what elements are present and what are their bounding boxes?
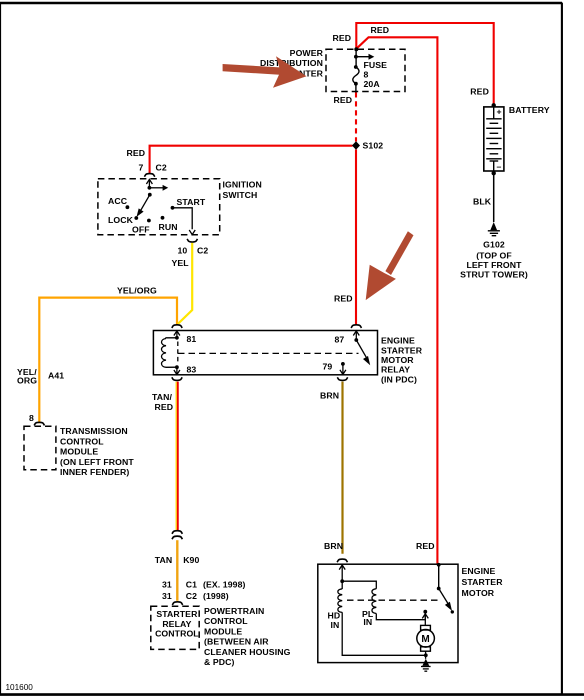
svg-text:HD: HD	[328, 611, 341, 621]
svg-text:START: START	[177, 197, 206, 207]
svg-text:STARTER: STARTER	[381, 345, 423, 355]
svg-text:ENGINE: ENGINE	[462, 566, 496, 576]
svg-text:TAN/: TAN/	[152, 392, 173, 402]
svg-text:MOTOR: MOTOR	[381, 355, 414, 365]
svg-text:RUN: RUN	[159, 222, 178, 232]
svg-text:(EX. 1998): (EX. 1998)	[203, 579, 246, 589]
svg-text:CLEANER HOUSING: CLEANER HOUSING	[204, 647, 291, 657]
svg-text:7: 7	[139, 163, 144, 173]
svg-text:MODULE: MODULE	[204, 626, 242, 636]
svg-text:81: 81	[187, 334, 197, 344]
svg-text:RED: RED	[333, 33, 352, 43]
svg-text:RED: RED	[334, 294, 353, 304]
svg-text:ACC: ACC	[108, 196, 128, 206]
svg-text:20A: 20A	[364, 79, 381, 89]
svg-text:C2: C2	[186, 591, 197, 601]
svg-text:–: –	[497, 162, 502, 172]
svg-text:IGNITION: IGNITION	[223, 180, 262, 190]
svg-text:TAN: TAN	[155, 555, 173, 565]
svg-text:87: 87	[335, 335, 345, 345]
svg-text:M: M	[421, 634, 429, 645]
svg-text:STRUT TOWER): STRUT TOWER)	[460, 269, 528, 279]
svg-text:CONTROL: CONTROL	[60, 436, 104, 446]
svg-text:BRN: BRN	[320, 391, 339, 401]
svg-text:CONTROL: CONTROL	[155, 628, 199, 638]
svg-text:(BETWEEN AIR: (BETWEEN AIR	[204, 637, 269, 647]
svg-text:K90: K90	[183, 555, 199, 565]
svg-text:(1998): (1998)	[203, 591, 229, 601]
svg-text:8: 8	[364, 70, 369, 80]
svg-text:(ON LEFT FRONT: (ON LEFT FRONT	[60, 457, 134, 467]
svg-text:FUSE: FUSE	[364, 60, 388, 70]
svg-text:A41: A41	[48, 370, 64, 380]
svg-text:C2: C2	[197, 246, 208, 256]
svg-text:31: 31	[162, 591, 172, 601]
svg-text:RELAY: RELAY	[381, 365, 410, 375]
svg-text:RED: RED	[470, 87, 489, 97]
svg-text:RED: RED	[416, 541, 435, 551]
svg-text:CONTROL: CONTROL	[204, 616, 248, 626]
svg-text:LOCK: LOCK	[108, 215, 134, 225]
svg-text:BLK: BLK	[473, 197, 492, 207]
svg-text:OFF: OFF	[132, 225, 150, 235]
svg-text:RED: RED	[371, 25, 390, 35]
svg-text:8: 8	[29, 413, 34, 423]
svg-text:ENGINE: ENGINE	[381, 336, 415, 346]
svg-text:RED: RED	[155, 402, 174, 412]
svg-text:101600: 101600	[6, 683, 34, 692]
svg-text:G102: G102	[483, 239, 505, 249]
svg-text:BRN: BRN	[324, 541, 343, 551]
svg-text:79: 79	[323, 362, 333, 372]
svg-text:POWERTRAIN: POWERTRAIN	[204, 606, 264, 616]
svg-text:STARTER: STARTER	[462, 577, 504, 587]
svg-text:S102: S102	[363, 141, 384, 151]
svg-text:(IN PDC): (IN PDC)	[381, 374, 417, 384]
svg-text:RED: RED	[334, 95, 353, 105]
svg-text:RED: RED	[127, 148, 146, 158]
svg-text:C2: C2	[156, 163, 167, 173]
svg-text:& PDC): & PDC)	[204, 657, 235, 667]
svg-text:YEL: YEL	[172, 258, 190, 268]
svg-text:MOTOR: MOTOR	[462, 588, 495, 598]
svg-text:ORG: ORG	[17, 376, 37, 386]
svg-text:83: 83	[187, 365, 197, 375]
svg-text:YEL/ORG: YEL/ORG	[117, 286, 157, 296]
svg-text:31: 31	[162, 579, 172, 589]
svg-text:IN: IN	[331, 620, 340, 630]
svg-text:POWER: POWER	[290, 48, 324, 58]
svg-text:IN: IN	[363, 617, 372, 627]
svg-text:MODULE: MODULE	[60, 447, 98, 457]
svg-text:10: 10	[178, 246, 188, 256]
svg-text:+: +	[497, 107, 502, 117]
svg-text:LEFT FRONT: LEFT FRONT	[466, 260, 522, 270]
svg-text:SWITCH: SWITCH	[223, 190, 258, 200]
svg-text:(TOP OF: (TOP OF	[476, 250, 512, 260]
svg-text:STARTER: STARTER	[156, 609, 198, 619]
svg-text:BATTERY: BATTERY	[509, 105, 550, 115]
svg-text:C1: C1	[186, 579, 197, 589]
svg-text:TRANSMISSION: TRANSMISSION	[60, 426, 128, 436]
svg-text:INNER FENDER): INNER FENDER)	[60, 467, 129, 477]
